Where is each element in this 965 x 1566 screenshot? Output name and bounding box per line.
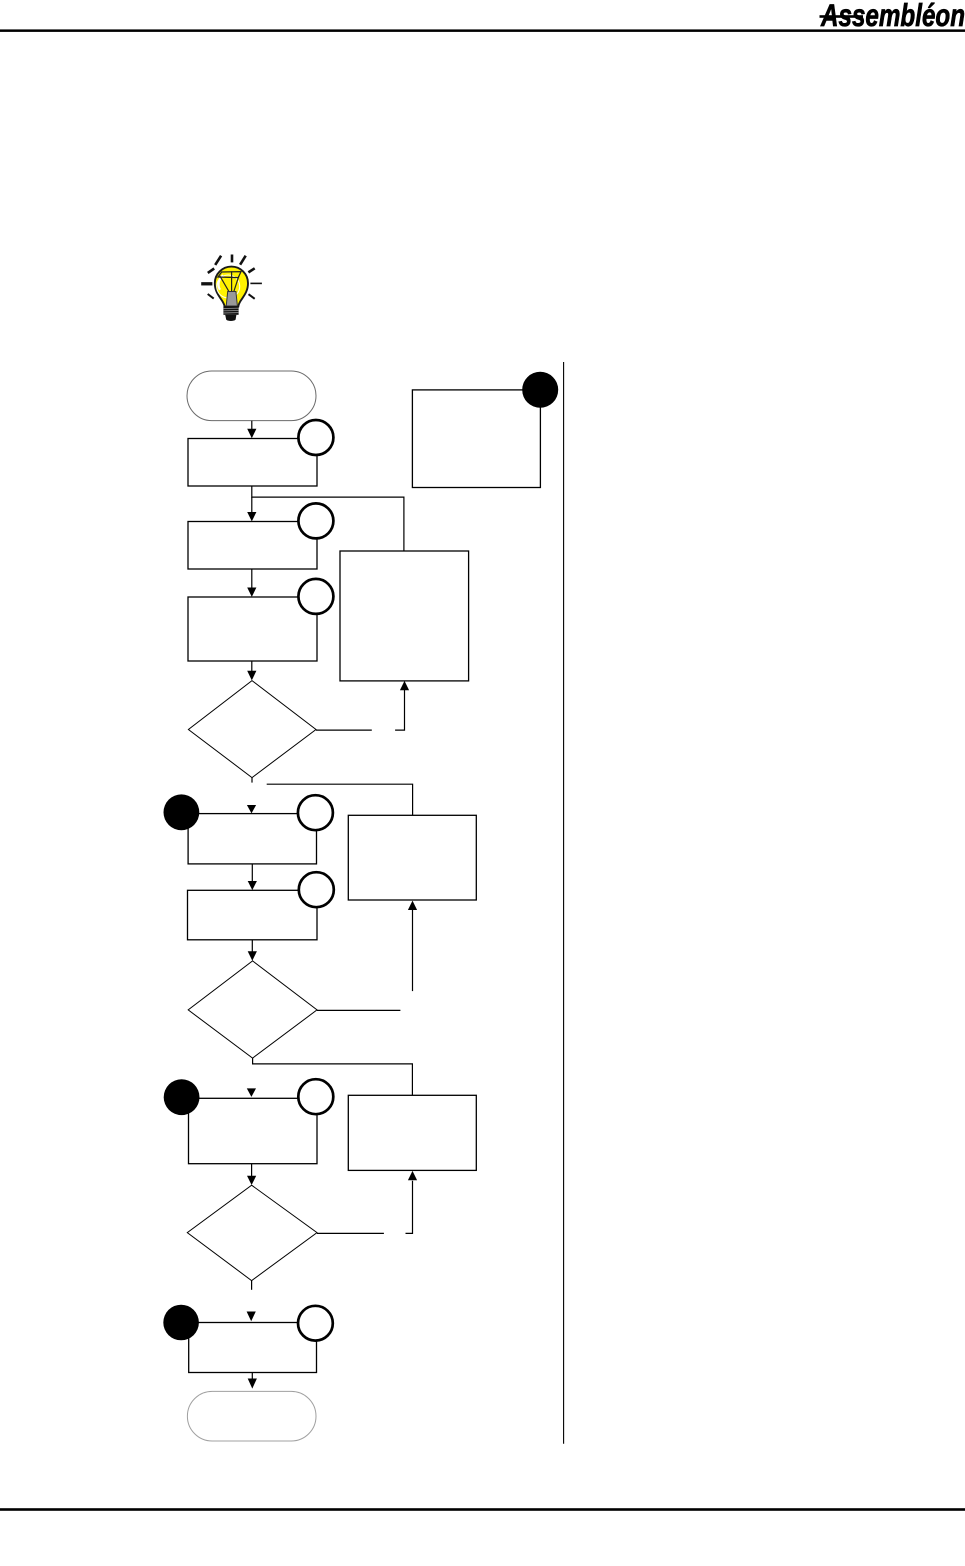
diamond2 bottom + branch to right rect3 [253,1058,413,1095]
filament [218,271,241,296]
flowchart [163,362,563,1444]
rect3 [188,597,317,661]
arrow rect4->rect5 [251,864,253,882]
arrow rect3->diamond1 [251,661,253,672]
big rect [340,551,469,681]
rect2 [188,522,317,570]
diamond1 right branch [316,729,372,731]
diamond3 [187,1185,317,1280]
stem [226,292,237,307]
branch to right rect2 [267,784,413,815]
arrow rect6->diamond3 [251,1164,253,1177]
glass [215,267,248,307]
arrow rect5->diamond2 [251,940,253,952]
diamond1 [188,681,316,778]
rect7 [189,1323,317,1373]
diamond3 bottom stub [251,1281,253,1290]
diamond1 bottom stub [251,778,253,783]
rect5 [188,890,318,940]
rays [201,255,262,299]
diamond2 right branch [317,1009,400,1011]
circle on rect1 [298,420,333,455]
right vertical rule [563,362,565,1444]
rect6 [189,1098,318,1163]
lone arrow into rect4 [247,805,256,813]
rect1 [188,439,317,487]
header rule [0,29,965,32]
rect4 [188,814,316,864]
screw base [223,306,238,315]
lone arrow into rect6 [247,1088,256,1097]
diamond2 [188,961,317,1058]
light bulb icon [201,255,262,321]
arrow start->rect1 [251,421,253,430]
start terminator [187,371,316,421]
right rect2 [348,815,476,900]
arrow rect2->rect3 [251,569,253,588]
branch to big box [252,486,404,551]
arrow up into right rect2 [412,910,414,992]
black circle on top-right rect [522,372,558,408]
footer rule [0,1508,965,1511]
lone arrow into rect7 [247,1312,256,1322]
arrow rect7->end [251,1373,253,1380]
right rect3 [348,1095,476,1170]
diamond3 right branch [317,1232,384,1234]
end terminator [187,1391,316,1441]
top-right rect [412,390,540,488]
logo Assembleon [820,0,965,33]
arrow into rect2 [251,497,253,513]
inner highlight circle [217,275,240,298]
